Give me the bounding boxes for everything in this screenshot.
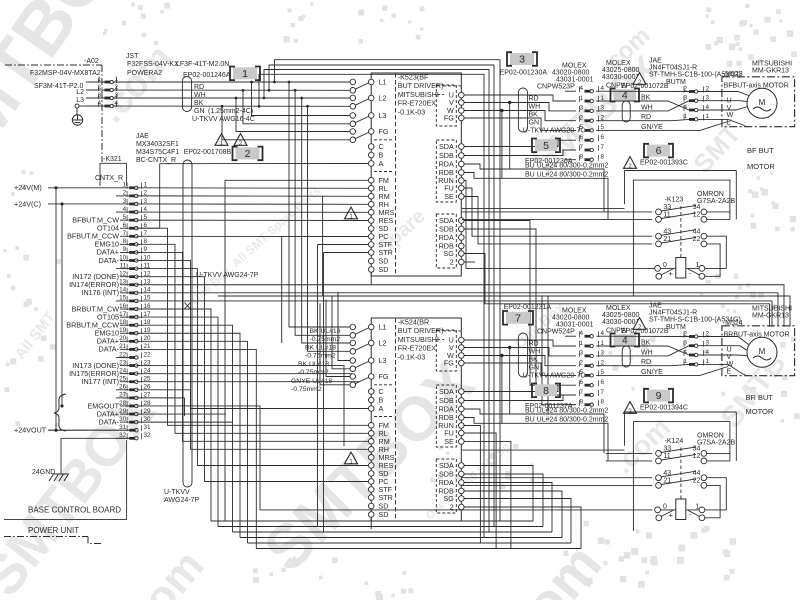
- wires K321 to K524 and bottom bundle: [48, 228, 790, 548]
- svg-text:4: 4: [579, 85, 583, 92]
- label U-TKVV AWG24-7P (mid): [196, 272, 259, 279]
- motor circuit BR (bottom): [464, 330, 749, 461]
- svg-text:E: E: [727, 366, 732, 375]
- svg-text:5: 5: [579, 369, 583, 376]
- svg-text:FG: FG: [444, 114, 454, 123]
- driver K524 pins: [350, 323, 464, 520]
- svg-text:U-TKVV AWG20-7C: U-TKVV AWG20-7C: [523, 128, 586, 135]
- svg-text:M: M: [759, 98, 766, 107]
- svg-text:JAE: JAE: [649, 58, 662, 65]
- labels JST header / POWERA2: [126, 53, 231, 79]
- svg-text:BK UL#18: BK UL#18: [305, 345, 336, 352]
- reference box 4 (EP02-001072B): [611, 83, 669, 102]
- svg-text:FG: FG: [379, 372, 389, 381]
- relay -K123 (OMRON G7SA-2A2B): [462, 171, 736, 297]
- svg-text:EP02-001230A: EP02-001230A: [500, 70, 548, 77]
- svg-text:3: 3: [519, 54, 525, 66]
- svg-text:GN: GN: [529, 364, 540, 371]
- svg-text:21: 21: [663, 236, 671, 243]
- svg-text:POWERA2: POWERA2: [127, 70, 162, 77]
- svg-text:1: 1: [579, 95, 583, 102]
- svg-text:MOLEX: MOLEX: [606, 60, 631, 67]
- reference box 8 (EP02-001237A): [525, 384, 573, 411]
- inverter driver U-K523 (BF BUT DRIVER, MITSUBISHI FR-E720EX): [371, 73, 461, 277]
- warning triangle 1: [215, 134, 228, 147]
- svg-text:FG: FG: [444, 359, 454, 368]
- svg-text:6: 6: [601, 379, 605, 386]
- warning triangle 1 (K523 MRS): [345, 207, 358, 220]
- svg-text:31: 31: [144, 424, 152, 431]
- svg-text:DATA-: DATA-: [99, 417, 120, 426]
- svg-text:WH: WH: [529, 103, 541, 110]
- svg-text:MOLEX: MOLEX: [606, 305, 631, 312]
- svg-text:22: 22: [144, 351, 152, 358]
- svg-text:FR-E720EX: FR-E720EX: [398, 99, 437, 108]
- svg-text:M: M: [759, 347, 766, 356]
- svg-text:-0.75mm2: -0.75mm2: [310, 336, 341, 343]
- svg-text:POWER UNIT: POWER UNIT: [28, 526, 79, 535]
- wire labels RD/WH/BK/GN U-TKVV AWG16-4C: [192, 84, 255, 123]
- svg-text:L2: L2: [379, 94, 387, 103]
- svg-text:DATA-: DATA-: [99, 345, 120, 354]
- svg-text:U-TKVV AWG16-4C: U-TKVV AWG16-4C: [192, 116, 255, 123]
- svg-text:BU UL#24 80/300-0.2mm2: BU UL#24 80/300-0.2mm2: [525, 172, 608, 179]
- svg-text:43: 43: [663, 228, 671, 235]
- svg-text:L3: L3: [379, 111, 387, 120]
- svg-text:3: 3: [579, 350, 583, 357]
- svg-text:G7SA-2A2B: G7SA-2A2B: [697, 440, 735, 447]
- connector -K321 CNTX_R (32-pin): [4, 156, 151, 520]
- svg-text:43: 43: [663, 470, 671, 477]
- svg-text:8: 8: [601, 154, 605, 161]
- svg-text:BU UL#24 80/300-0.2mm2: BU UL#24 80/300-0.2mm2: [525, 417, 608, 424]
- svg-text:BU UL#24 80/300-0.2mm2: BU UL#24 80/300-0.2mm2: [525, 408, 608, 415]
- svg-text:-0.1K-03: -0.1K-03: [398, 107, 426, 116]
- svg-text:MOTOR: MOTOR: [746, 407, 774, 416]
- reference box 9 (EP02-001394C): [640, 389, 688, 412]
- svg-text:EP02-001708B: EP02-001708B: [184, 149, 232, 156]
- svg-text:1: 1: [242, 68, 248, 80]
- svg-text:7: 7: [579, 144, 583, 151]
- svg-text:WH: WH: [641, 104, 653, 111]
- svg-text:-K321: -K321: [103, 156, 122, 163]
- svg-text:11: 11: [663, 453, 670, 460]
- svg-text:BK UL#18: BK UL#18: [298, 361, 329, 368]
- svg-text:3: 3: [579, 105, 583, 112]
- svg-text:RD: RD: [529, 96, 539, 103]
- svg-text:BK: BK: [641, 95, 651, 102]
- svg-text:WH: WH: [641, 349, 653, 356]
- warning triangle 2 (bottom box4): [633, 318, 646, 331]
- svg-text:22: 22: [693, 478, 701, 485]
- svg-text:+: +: [669, 511, 674, 520]
- svg-text:DATA-: DATA-: [99, 256, 120, 265]
- svg-text:6: 6: [579, 379, 583, 386]
- svg-text:44: 44: [693, 228, 701, 235]
- svg-text:11: 11: [663, 212, 670, 219]
- svg-text:BC-CNTX_R: BC-CNTX_R: [136, 157, 176, 164]
- svg-text:6: 6: [601, 134, 605, 141]
- svg-text:U-TKVV AWG20-7C: U-TKVV AWG20-7C: [523, 373, 586, 380]
- motor circuit BF (top): [462, 85, 749, 219]
- svg-text:BK: BK: [641, 340, 651, 347]
- svg-text:(1.25mm2-4C): (1.25mm2-4C): [208, 108, 253, 115]
- svg-text:F32MSP-04V-MX8TA2: F32MSP-04V-MX8TA2: [30, 70, 101, 77]
- svg-text:7: 7: [579, 389, 583, 396]
- svg-text:44: 44: [693, 470, 701, 477]
- twisted pair crossover: [185, 303, 191, 310]
- inverter driver U-K524 (BR BUT DRIVER, MITSUBISHI FR-E720EX): [371, 318, 461, 522]
- svg-text:SD: SD: [379, 510, 389, 519]
- svg-text:-M524: -M524: [723, 320, 743, 327]
- warning triangle 2 (top box4): [633, 73, 646, 86]
- svg-text:6: 6: [656, 145, 662, 157]
- warning triangle 2: [234, 134, 247, 147]
- svg-text:MM-GKR13: MM-GKR13: [752, 313, 789, 320]
- connector -A02 (power input header): [5, 58, 119, 162]
- svg-text:EP02-001394C: EP02-001394C: [640, 405, 688, 412]
- svg-text:12: 12: [693, 453, 701, 460]
- wire labels BK UL#18 / GNYE UL#18: [291, 328, 341, 393]
- reference box 1 (EP02-001246A): [230, 67, 260, 81]
- svg-text:8: 8: [579, 399, 583, 406]
- svg-text:1: 1: [579, 340, 583, 347]
- wires driver to relay K123: [464, 181, 655, 269]
- svg-text:GN: GN: [194, 108, 205, 115]
- svg-text:SE: SE: [444, 437, 454, 446]
- svg-text:SE: SE: [444, 192, 454, 201]
- svg-text:F32FSS-04V-KX: F32FSS-04V-KX: [127, 61, 179, 68]
- svg-text:A: A: [379, 404, 384, 413]
- cable marker POWERA2 (U-TKVV AWG16-4C): [182, 77, 191, 112]
- svg-text:+24VOUT: +24VOUT: [14, 426, 47, 435]
- svg-text:43025-0800: 43025-0800: [602, 67, 639, 74]
- labels MOLEX / JAE BUTM / MITSUBISHI (top): [537, 58, 792, 91]
- svg-text:MX34032SF1: MX34032SF1: [136, 141, 179, 148]
- wires K321 to driver K523: [136, 164, 552, 533]
- labels MOLEX / JAE BUTM / MITSUBISHI (bottom): [537, 303, 792, 336]
- svg-text:MOTOR: MOTOR: [747, 162, 775, 171]
- wires communication daisy chain: [464, 140, 770, 414]
- svg-text:BK: BK: [529, 356, 539, 363]
- svg-text:RD: RD: [529, 341, 539, 348]
- svg-text:BFBUT-axis MOTOR: BFBUT-axis MOTOR: [724, 82, 789, 89]
- svg-text:JAE: JAE: [136, 133, 149, 140]
- svg-text:5: 5: [543, 140, 549, 152]
- svg-text:7: 7: [601, 144, 605, 151]
- svg-text:CNPW524P: CNPW524P: [537, 329, 575, 336]
- reference box 5 (EP02-001236A): [525, 139, 573, 166]
- svg-text:4: 4: [97, 100, 101, 107]
- wire labels BU UL#24 (top): [525, 163, 608, 179]
- svg-text:JST: JST: [126, 53, 139, 60]
- svg-text:AWG24-7P: AWG24-7P: [164, 497, 199, 504]
- svg-text:-0.1K-03: -0.1K-03: [398, 352, 426, 361]
- svg-text:OMRON: OMRON: [697, 191, 724, 198]
- svg-text:2: 2: [245, 148, 251, 160]
- label POWER UNIT: [4, 526, 101, 544]
- svg-text:8: 8: [601, 399, 605, 406]
- wire labels BU UL#24 (bottom): [525, 408, 608, 424]
- svg-text:6: 6: [579, 134, 583, 141]
- svg-text:32: 32: [144, 432, 152, 439]
- warning triangle 1 (K524 MRS): [345, 452, 358, 465]
- svg-text:L1: L1: [379, 78, 387, 87]
- svg-text:22: 22: [693, 236, 701, 243]
- svg-text:CNPW523P: CNPW523P: [537, 84, 575, 91]
- brace (EMGOUT group): [54, 394, 66, 431]
- svg-text:43031-0001: 43031-0001: [556, 77, 593, 84]
- svg-text:U-TKVV AWG24-7P: U-TKVV AWG24-7P: [196, 272, 259, 279]
- svg-text:43020-0800: 43020-0800: [552, 315, 589, 322]
- svg-text:9: 9: [656, 390, 662, 402]
- svg-text:JAE: JAE: [649, 303, 662, 310]
- svg-text:2: 2: [97, 84, 101, 91]
- svg-text:2: 2: [579, 360, 583, 367]
- svg-text:MITSUBISHI: MITSUBISHI: [752, 61, 792, 68]
- svg-text:L2: L2: [76, 89, 84, 96]
- svg-text:BK: BK: [529, 111, 539, 118]
- svg-text:3: 3: [97, 92, 101, 99]
- svg-text:+: +: [669, 269, 674, 278]
- svg-text:L3: L3: [76, 97, 84, 104]
- svg-text:GN/YE: GN/YE: [641, 369, 663, 376]
- svg-text:SDA: SDA: [439, 142, 454, 151]
- svg-text:BRBUT-axis MOTOR: BRBUT-axis MOTOR: [724, 331, 790, 338]
- reference box 6 (EP02-001393C): [640, 144, 688, 167]
- svg-text:5: 5: [579, 124, 583, 131]
- protective earth ground (A02): [72, 104, 86, 125]
- 24GND chassis ground: [32, 438, 129, 481]
- svg-text:MOLEX: MOLEX: [562, 63, 587, 70]
- svg-text:A: A: [379, 159, 384, 168]
- svg-text:LF3F-41T-M2.0N: LF3F-41T-M2.0N: [176, 61, 229, 68]
- svg-text:RD: RD: [641, 114, 651, 121]
- svg-text:SDA: SDA: [439, 387, 454, 396]
- svg-text:1: 1: [97, 76, 101, 83]
- svg-text:U-TKVV: U-TKVV: [164, 489, 190, 496]
- reference box 4b (EP02-001072B bottom): [611, 328, 669, 347]
- svg-text:BR BUT: BR BUT: [746, 393, 774, 402]
- svg-text:43031-0001: 43031-0001: [556, 322, 593, 329]
- wires power distribution loops: [113, 60, 501, 538]
- svg-text:MITSUBISHI: MITSUBISHI: [398, 90, 439, 99]
- svg-text:G7SA-2A2B: G7SA-2A2B: [697, 198, 735, 205]
- svg-text:SD: SD: [379, 265, 389, 274]
- svg-text:IN177 (INT): IN177 (INT): [81, 377, 119, 386]
- svg-text:L3: L3: [379, 356, 387, 365]
- svg-text:-K124: -K124: [665, 438, 684, 445]
- svg-text:-M523: -M523: [723, 71, 743, 78]
- svg-text:34: 34: [693, 446, 701, 453]
- svg-text:-A02: -A02: [84, 58, 99, 65]
- svg-text:MITSUBISHI: MITSUBISHI: [398, 335, 439, 344]
- svg-text:M34S75C4F1: M34S75C4F1: [136, 149, 179, 156]
- svg-text:8: 8: [579, 154, 583, 161]
- svg-text:33: 33: [663, 204, 671, 211]
- svg-text:MOLEX: MOLEX: [562, 308, 587, 315]
- reference box 7 (EP02-001231A): [503, 304, 551, 325]
- svg-text:GN: GN: [529, 119, 540, 126]
- +24V distribution wire: [54, 186, 63, 432]
- cable marker U-TKVV AWG24-7P (long): [183, 160, 192, 487]
- svg-text:21: 21: [663, 478, 671, 485]
- label U-TKVV AWG24-7P (bottom): [164, 489, 199, 504]
- svg-text:-K524(BR: -K524(BR: [398, 318, 430, 327]
- svg-text:JN4FT04SJ1-R: JN4FT04SJ1-R: [649, 310, 697, 317]
- label BASE CONTROL BOARD: [28, 506, 121, 515]
- warning triangle 2 (box6): [624, 157, 637, 170]
- svg-text:L2: L2: [379, 339, 387, 348]
- svg-text:2: 2: [579, 115, 583, 122]
- svg-text:OMRON: OMRON: [697, 433, 724, 440]
- svg-text:+24V(C): +24V(C): [14, 199, 41, 208]
- svg-text:L1: L1: [379, 323, 387, 332]
- svg-text:24GND: 24GND: [32, 469, 55, 476]
- svg-text:BF BUT: BF BUT: [747, 146, 774, 155]
- svg-text:43025-0800: 43025-0800: [602, 312, 639, 319]
- svg-text:33: 33: [663, 446, 671, 453]
- svg-text:IN176 (INT): IN176 (INT): [81, 288, 119, 297]
- svg-text:+24V(M): +24V(M): [14, 183, 42, 192]
- svg-text:12: 12: [693, 212, 701, 219]
- svg-text:43030-0001: 43030-0001: [602, 74, 639, 81]
- svg-text:2: 2: [450, 258, 454, 267]
- bottom wire bundle (nested): [211, 466, 581, 549]
- svg-text:CNTX_R: CNTX_R: [95, 175, 123, 182]
- warning triangle 2 (box9): [624, 402, 637, 415]
- reference box 3 (EP02-001230A): [500, 52, 548, 76]
- label BF BUT MOTOR: [747, 146, 775, 171]
- svg-text:MITSUBISHI: MITSUBISHI: [752, 306, 792, 313]
- svg-text:43020-0800: 43020-0800: [552, 70, 589, 77]
- svg-text:E: E: [727, 117, 732, 126]
- svg-text:GN/YE: GN/YE: [641, 124, 663, 131]
- label BR BUT MOTOR: [746, 393, 774, 416]
- motor -M523 (BFBUT-axis, MITSUBISHI MM-GKR13): [722, 71, 795, 127]
- svg-text:-0.75mm2: -0.75mm2: [298, 369, 329, 376]
- svg-text:RD: RD: [641, 359, 651, 366]
- svg-text:7: 7: [601, 389, 605, 396]
- svg-text:MM-GKR13: MM-GKR13: [752, 68, 789, 75]
- svg-text:34: 34: [693, 204, 701, 211]
- svg-text:43030-0001: 43030-0001: [602, 319, 639, 326]
- labels JAE MX34032SF1 connector: [136, 133, 232, 164]
- svg-text:JN4FT04SJ1-R: JN4FT04SJ1-R: [649, 65, 697, 72]
- svg-text:-K123: -K123: [665, 197, 684, 204]
- svg-text:EP02-001393C: EP02-001393C: [640, 160, 688, 167]
- motor -M524 (BRBUT-axis): [722, 320, 795, 376]
- svg-text:WH: WH: [529, 348, 541, 355]
- svg-text:7: 7: [515, 312, 521, 324]
- svg-text:8: 8: [543, 385, 549, 397]
- svg-text:BASE CONTROL BOARD: BASE CONTROL BOARD: [28, 506, 121, 515]
- svg-text:BK UL#18: BK UL#18: [310, 328, 341, 335]
- svg-text:4: 4: [579, 330, 583, 337]
- relay -K124 (OMRON G7SA-2A2B): [462, 412, 736, 531]
- svg-text:FG: FG: [379, 127, 389, 136]
- svg-text:BU UL#24 80/300-0.2mm2: BU UL#24 80/300-0.2mm2: [525, 163, 608, 170]
- svg-text:EP02-001231A: EP02-001231A: [504, 304, 552, 311]
- wires driver K524 to relay K124 area: [462, 426, 652, 549]
- reference box 2 (EP02-001708B): [233, 147, 263, 161]
- svg-text:FR-E720EX: FR-E720EX: [398, 344, 437, 353]
- svg-text:-K523(BF: -K523(BF: [398, 73, 429, 82]
- driver K523 pins: [350, 78, 464, 275]
